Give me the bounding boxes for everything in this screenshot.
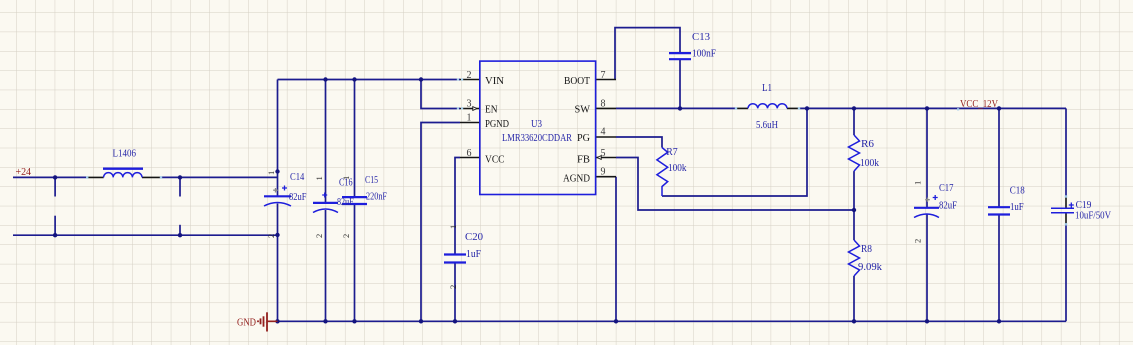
svg-text:1: 1: [314, 176, 324, 180]
svg-text:5: 5: [601, 148, 606, 159]
svg-text:VCC_12V: VCC_12V: [960, 99, 999, 110]
svg-text:2: 2: [448, 285, 458, 289]
svg-text:2: 2: [314, 234, 324, 238]
svg-text:1: 1: [467, 113, 472, 124]
svg-text:100nF: 100nF: [692, 49, 716, 60]
svg-text:2: 2: [913, 239, 923, 243]
svg-text:10uF/50V: 10uF/50V: [1075, 211, 1112, 222]
svg-text:U3: U3: [531, 119, 542, 130]
svg-text:9.09k: 9.09k: [858, 262, 882, 273]
svg-text:BOOT: BOOT: [564, 75, 590, 87]
svg-text:1uF: 1uF: [1010, 202, 1024, 213]
svg-text:C17: C17: [939, 183, 954, 194]
svg-text:4: 4: [601, 127, 606, 138]
svg-text:7: 7: [601, 70, 606, 81]
svg-text:L1406: L1406: [113, 149, 137, 160]
svg-text:1uF: 1uF: [466, 249, 481, 260]
svg-text:C13: C13: [692, 32, 710, 43]
svg-text:5.6uH: 5.6uH: [756, 120, 778, 131]
svg-text:L1: L1: [762, 83, 772, 94]
svg-text:9: 9: [601, 167, 606, 178]
svg-text:6: 6: [467, 148, 472, 159]
svg-text:AGND: AGND: [563, 173, 590, 185]
svg-text:3: 3: [467, 99, 472, 110]
svg-text:82uF: 82uF: [289, 192, 307, 203]
svg-text:2: 2: [341, 234, 351, 238]
svg-text:1: 1: [266, 171, 276, 175]
svg-text:100k: 100k: [668, 163, 687, 174]
svg-text:C20: C20: [465, 232, 483, 243]
svg-text:1: 1: [448, 225, 458, 229]
svg-text:GND: GND: [237, 317, 256, 328]
svg-text:EN: EN: [485, 104, 498, 116]
svg-text:82uF: 82uF: [939, 200, 957, 211]
svg-text:R8: R8: [861, 244, 872, 255]
svg-text:C14: C14: [290, 172, 304, 183]
svg-text:100k: 100k: [860, 158, 879, 169]
svg-text:C18: C18: [1010, 185, 1025, 196]
svg-text:2: 2: [467, 70, 472, 81]
svg-text:C19: C19: [1076, 200, 1092, 211]
svg-text:C15: C15: [365, 175, 378, 186]
svg-text:VIN: VIN: [485, 75, 504, 87]
svg-text:SW: SW: [575, 104, 591, 116]
svg-text:R6: R6: [861, 139, 874, 150]
svg-text:FB: FB: [577, 154, 590, 166]
svg-text:1: 1: [913, 181, 923, 185]
svg-text:2: 2: [266, 234, 276, 238]
svg-text:R7: R7: [666, 147, 678, 158]
svg-text:8: 8: [601, 99, 606, 110]
svg-text:PG: PG: [577, 132, 590, 144]
svg-text:1: 1: [341, 176, 351, 180]
svg-text:PGND: PGND: [485, 118, 509, 130]
svg-text:VCC: VCC: [485, 154, 505, 166]
svg-text:LMR33620CDDAR: LMR33620CDDAR: [502, 133, 572, 144]
svg-text:82uF: 82uF: [337, 197, 354, 208]
svg-text:+24: +24: [16, 167, 32, 178]
svg-text:220nF: 220nF: [366, 192, 387, 203]
